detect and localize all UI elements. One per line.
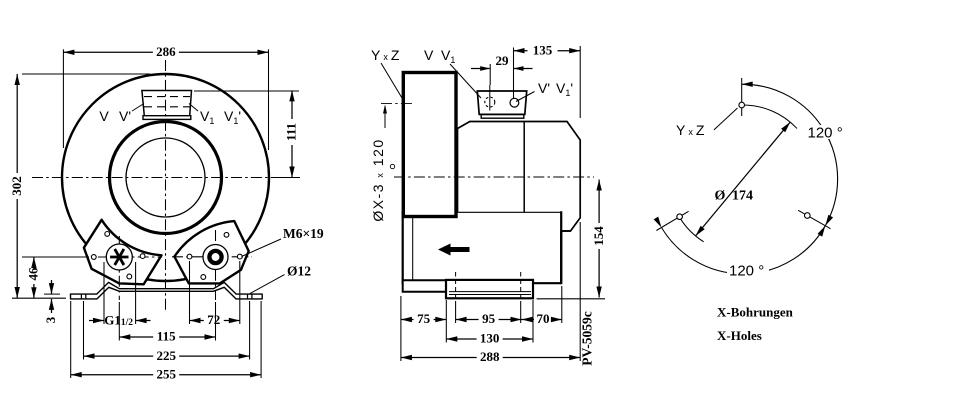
svg-text:286: 286 [156, 44, 176, 59]
svg-text:302: 302 [9, 176, 24, 196]
svg-text:3: 3 [43, 316, 58, 323]
svg-text:154: 154 [591, 226, 606, 246]
svg-text:225: 225 [156, 348, 176, 363]
svg-text:Ø: Ø [715, 189, 726, 204]
svg-text:M6×19: M6×19 [283, 226, 324, 241]
svg-text:111: 111 [284, 123, 299, 141]
svg-text:V1': V1' [224, 108, 241, 126]
svg-text:130: 130 [480, 331, 500, 346]
svg-text:X-Bohrungen: X-Bohrungen [717, 305, 794, 320]
svg-text:PV-5059c: PV-5059c [580, 311, 595, 365]
svg-text:75: 75 [417, 311, 431, 326]
svg-text:70: 70 [537, 311, 550, 326]
svg-text:V': V' [119, 108, 131, 124]
svg-text:115: 115 [157, 329, 176, 344]
svg-text:46: 46 [26, 267, 41, 281]
svg-text:Ø12: Ø12 [287, 264, 311, 279]
svg-text:V: V [424, 47, 434, 63]
svg-text:72: 72 [207, 312, 220, 327]
svg-text:288: 288 [480, 349, 500, 364]
svg-text:V: V [99, 108, 109, 124]
svg-text:120 °: 120 ° [808, 124, 843, 141]
svg-text:V': V' [538, 80, 550, 96]
svg-text:95: 95 [482, 311, 496, 326]
svg-text:174: 174 [732, 189, 753, 204]
svg-text:120 °: 120 ° [729, 263, 764, 280]
svg-text:X-Holes: X-Holes [717, 328, 762, 343]
svg-text:255: 255 [156, 366, 176, 381]
svg-text:29: 29 [496, 53, 510, 68]
svg-text:135: 135 [533, 42, 553, 57]
svg-text:ØX-3 x 120: ØX-3 x 120 [370, 138, 386, 221]
svg-text:V1': V1' [556, 80, 573, 98]
